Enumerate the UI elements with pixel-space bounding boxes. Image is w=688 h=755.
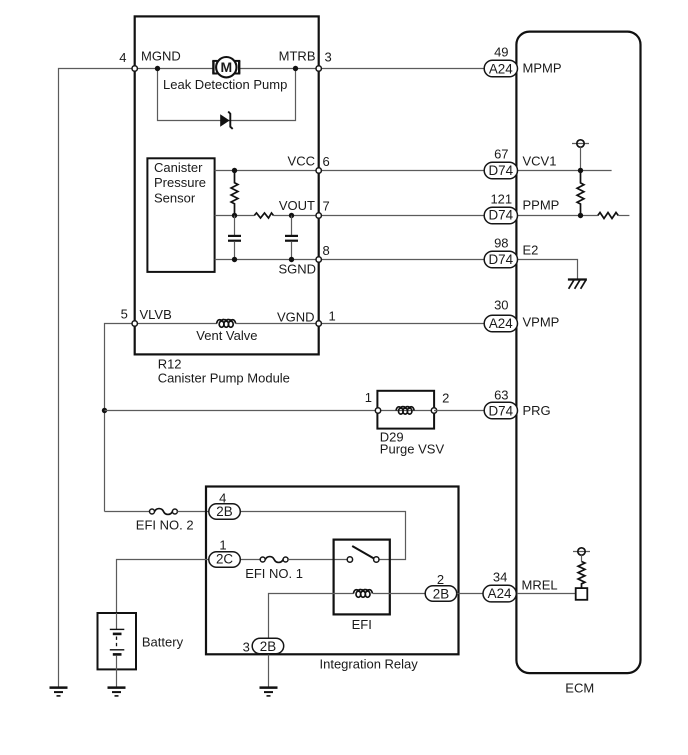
wire VCC row (sensor to pin 6) [215,170,319,172]
pin 5 terminal [132,321,137,326]
node junction SGND right [289,257,294,262]
svg-text:D74: D74 [489,252,514,267]
svg-text:Sensor: Sensor [154,190,196,205]
node junction MTRB-diode [293,66,298,71]
svg-text:M: M [220,59,232,75]
svg-text:8: 8 [323,243,330,258]
wire VOUT row sensor to resistor [215,215,255,217]
wire E2 inside ECM [516,260,577,280]
pin 1 terminal [316,321,321,326]
wire PPMP inside ECM [516,215,597,217]
svg-text:1: 1 [365,390,372,405]
wire relay coil to pin 2 [373,593,425,595]
svg-text:VOUT: VOUT [279,198,315,213]
svg-text:7: 7 [323,199,330,214]
connector oval D74 pin 67 VCV1 [484,162,517,179]
svg-text:3: 3 [243,640,250,655]
svg-text:1: 1 [219,538,226,553]
svg-text:R12: R12 [158,357,182,372]
wire VGND pin 1 to ECM A24 [319,323,485,325]
wire relay coil left branch [269,594,354,688]
svg-text:5: 5 [121,307,128,322]
battery box [98,613,137,669]
canister pressure sensor box [147,158,214,272]
ground (left rail bottom) [50,688,68,696]
wire PRG row to purge VSV [105,410,379,412]
svg-text:Vent Valve: Vent Valve [196,328,257,343]
wire MGND left branch from pin 4 to left rail [59,69,135,688]
fuse EFI NO. 1 [260,557,288,563]
svg-text:2B: 2B [260,639,276,654]
resistor (ECM series PPMP) [598,213,619,219]
node junction VCC divider [232,168,237,173]
wire VSV to ECM D74 [434,410,484,412]
ECM box [516,32,640,674]
svg-text:EFI NO. 1: EFI NO. 1 [245,566,303,581]
svg-text:E2: E2 [523,243,539,258]
switch contact left [347,557,352,562]
wire MREL inside ECM [516,593,575,595]
wire SGND pin 8 to ECM D74 [319,259,485,261]
svg-text:2: 2 [437,572,444,587]
ground (battery) [108,688,126,696]
svg-text:49: 49 [494,45,508,60]
pin 7 terminal [316,213,321,218]
connector oval 2C pin 1 [209,538,241,568]
wire battery feed to relay pin 1 [117,560,210,614]
capacitor C (left, sensor internal) [228,216,241,260]
svg-text:MREL: MREL [522,578,558,593]
inductor EFI relay coil [353,589,372,597]
resistor (ECM pull-up VCV1 to PPMP) [577,171,584,216]
svg-text:98: 98 [494,236,508,251]
power feed circle (MREL) [573,548,590,562]
integration relay box [206,487,459,655]
svg-text:30: 30 [494,298,508,313]
node junction VCV1 [578,168,583,173]
wire VLVB branch to left and down [105,324,135,512]
MREL input square [576,588,588,600]
svg-text:3: 3 [325,50,332,65]
wire SGND row sensor to pin 8 [215,259,319,261]
node junction VOUT left [232,213,237,218]
inductor vent valve coil [217,319,236,327]
svg-text:4: 4 [219,491,226,506]
svg-text:A24: A24 [489,316,513,331]
canister pump module R12 box [135,16,319,354]
wire VOUT pin 7 to ECM D74 [319,215,485,217]
wire diode loop [158,69,296,121]
node junction MGND-diode [155,66,160,71]
wire EFI NO.2 row [105,511,150,513]
svg-text:2B: 2B [216,504,232,519]
wire VCC pin 6 to ECM D74 [319,170,485,172]
svg-text:MTRB: MTRB [279,49,316,64]
svg-text:VPMP: VPMP [523,315,560,330]
connector oval 2B pin 2 [425,572,457,601]
svg-text:1: 1 [329,309,336,324]
switch blade [352,546,373,558]
purge VSV D29 box [377,391,434,429]
svg-text:VLVB: VLVB [140,307,172,322]
svg-text:SGND: SGND [278,262,316,277]
svg-text:2B: 2B [433,586,449,601]
svg-text:Battery: Battery [142,635,184,650]
EFI relay box [334,540,390,615]
svg-text:121: 121 [490,192,512,207]
svg-text:D74: D74 [489,403,514,418]
svg-text:MGND: MGND [141,49,181,64]
svg-text:EFI NO. 2: EFI NO. 2 [136,518,194,533]
wire resistor to pin 7 [274,215,319,217]
svg-text:MPMP: MPMP [523,61,562,76]
svg-text:A24: A24 [488,586,512,601]
wire motor to MTRB pin 3 [239,68,318,70]
pin 6 terminal [316,168,321,173]
motor M (leak detection pump) [212,57,240,77]
capacitor C (right, sensor internal) [285,216,298,260]
node junction SGND left [232,257,237,262]
pin 3 terminal [316,66,321,71]
node junction PPMP [578,213,583,218]
connector oval D74 pin 121 PPMP [484,207,517,224]
svg-text:D74: D74 [489,208,514,223]
wire fuse to EFI relay switch [288,559,347,561]
node junction VOUT right [289,213,294,218]
wire vent valve to pin 1 [236,323,319,325]
pin 8 terminal [316,257,321,262]
switch contact right [374,557,379,562]
svg-text:4: 4 [119,50,126,65]
inductor purge VSV coil [396,407,414,415]
wire PPMP resistor tail [618,215,629,217]
svg-text:VGND: VGND [277,310,315,325]
wire VLVB row to vent valve [135,323,217,325]
svg-text:67: 67 [494,147,508,162]
svg-text:Purge VSV: Purge VSV [380,442,445,457]
pin 1 terminal (VSV) [375,408,380,413]
resistor (MREL pull-up) [578,562,585,589]
svg-text:VCC: VCC [288,154,315,169]
connector oval A24 pin 30 VPMP [484,315,517,332]
svg-text:Canister Pump Module: Canister Pump Module [158,370,290,385]
wire relay pin1 to fuse EFI NO.1 [240,559,260,561]
wire fuse to relay pin 4 [177,511,209,513]
connector oval D74 pin 98 E2 [484,251,517,268]
svg-text:EFI: EFI [352,617,372,632]
svg-text:6: 6 [323,154,330,169]
wire relay pin 2 to ECM A24 [457,593,483,595]
ground (relay pin 3) [260,688,278,696]
svg-text:ECM: ECM [565,681,594,696]
power feed circle (VCV1 pull-up) [572,140,589,171]
svg-text:Leak Detection Pump: Leak Detection Pump [163,77,287,92]
wire battery to ground [116,669,118,687]
wire relay pin4 to switch [240,512,405,560]
svg-text:PPMP: PPMP [523,198,560,213]
chassis ground (E2) [568,280,587,289]
wire MTRB to ECM A24 [319,68,485,70]
diode (relief valve) across pump motor [220,112,233,129]
wire VCV1 inside ECM [516,170,611,172]
connector oval 2B pin 4 [209,491,241,520]
wire MGND row inside module (pin4 to motor) [135,68,214,70]
wire inside VSV [378,410,434,412]
svg-text:Canister: Canister [154,160,203,175]
svg-text:34: 34 [493,570,507,585]
connector oval D74 pin 63 PRG [484,402,517,419]
svg-text:A24: A24 [489,61,513,76]
node junction VLVB/PRG [102,408,107,413]
resistor (sensor internal, VCC to VOUT) [231,171,238,216]
svg-text:63: 63 [494,388,508,403]
svg-text:VCV1: VCV1 [523,154,557,169]
svg-text:D74: D74 [489,163,514,178]
battery cells [110,613,125,669]
svg-text:PRG: PRG [523,403,551,418]
connector oval 2B pin 3 [243,638,284,654]
svg-text:2: 2 [442,390,449,405]
pin 4 terminal [132,66,137,71]
connector oval A24 pin 49 MPMP [484,60,517,77]
pin 2 terminal (VSV) [431,408,436,413]
resistor (sensor internal, VOUT series) [254,213,273,218]
svg-text:2C: 2C [216,552,233,567]
connector oval A24 pin 34 MREL [483,585,516,602]
fuse EFI NO. 2 [150,509,178,515]
svg-text:Integration Relay: Integration Relay [320,657,419,672]
svg-text:Pressure: Pressure [154,175,206,190]
